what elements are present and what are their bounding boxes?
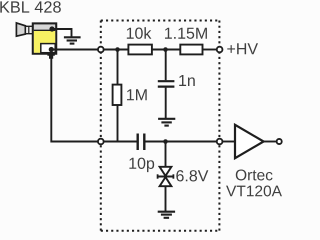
wire: 1n branch upper — [165, 50, 167, 81]
PMT cone — [16, 23, 25, 36]
label 1M — [127, 89, 147, 100]
coax connector plug — [47, 52, 54, 58]
gray strip — [34, 25, 55, 30]
wire: detector top pin to ground — [52, 29, 72, 37]
dashed enclosure box — [101, 21, 220, 231]
ground (1n) — [158, 119, 175, 126]
capacitor 10p — [138, 134, 145, 151]
wire: 1.15M to +HV terminal — [203, 49, 218, 51]
wire: zener to ground — [165, 186, 167, 212]
node: output of box (open circle on dashed edge) — [217, 139, 223, 145]
op-amp Ortec VT120A — [235, 125, 264, 158]
wire: box output to amplifier — [222, 141, 235, 143]
junction dot at 1n tap — [163, 47, 168, 52]
neck — [25, 26, 32, 33]
node: output terminal (open circle) — [277, 139, 282, 144]
white notch — [41, 44, 55, 53]
label +HV — [227, 43, 258, 54]
zener diode 6.8V (bidirectional) — [158, 167, 174, 186]
label 10p — [129, 158, 154, 172]
anode pin dot (top) — [49, 26, 54, 31]
wire: 1M branch upper — [117, 50, 119, 85]
junction dot at 1M tap — [115, 47, 120, 52]
label 1n — [179, 75, 195, 86]
wire: HV node to resistor 10k — [103, 49, 128, 51]
label KBL 428 — [0, 1, 60, 13]
label 1.15M — [165, 28, 207, 39]
wire: between 10k and 1.15M — [152, 49, 180, 51]
resistor 1M — [113, 85, 122, 105]
base box — [33, 23, 56, 53]
wire: 1M branch lower — [117, 105, 119, 142]
wire: 10p to output node — [146, 141, 218, 143]
wire: zener branch upper — [165, 142, 167, 167]
signal pin dot (bottom) — [49, 47, 54, 52]
node: HV input (open circle, left top) — [98, 47, 104, 53]
resistor 10k — [128, 45, 152, 55]
node: +HV terminal (open circle) — [217, 47, 223, 53]
label 6.8V — [176, 170, 208, 181]
ground (zener) — [158, 212, 175, 218]
yellow scintillator area — [34, 31, 55, 53]
label VT120A — [226, 185, 282, 196]
node: signal input (open circle, left bottom) — [98, 139, 104, 145]
ground (detector case) — [64, 37, 81, 43]
wire: 1n to ground — [165, 88, 167, 119]
label Ortec — [236, 169, 273, 180]
capacitor 1n — [158, 81, 175, 86]
resistor 1.15M — [180, 45, 202, 55]
wire: amplifier output — [264, 141, 276, 143]
detector KBL 428 (scintillator + PMT symbol) — [16, 23, 56, 59]
wire: detector bottom pin to HV node — [51, 49, 98, 51]
junction dot at zener tap — [163, 139, 168, 144]
wire: signal node to capacitor 10p — [103, 141, 137, 143]
label 10k — [127, 27, 152, 39]
wire: detector signal down and right to signal node — [51, 59, 98, 142]
